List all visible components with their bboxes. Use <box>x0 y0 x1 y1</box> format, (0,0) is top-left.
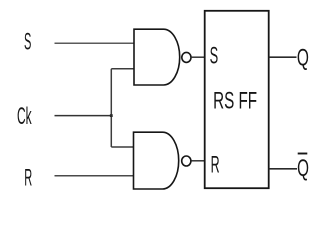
label Q output <box>297 45 309 71</box>
svg-text:R: R <box>211 152 220 178</box>
svg-text:R: R <box>24 164 32 191</box>
wire branch to top NAND input <box>111 68 134 70</box>
RS FF block U3 <box>205 11 269 188</box>
wire R input to bottom NAND <box>55 175 134 177</box>
label Q-bar output <box>297 154 309 183</box>
svg-text:Q: Q <box>297 156 309 182</box>
wire U2 output to RS FF R pin <box>192 160 205 162</box>
bubble of U1 <box>182 52 191 62</box>
pin label S of U3 <box>210 44 219 70</box>
svg-text:S: S <box>24 27 31 54</box>
wire Ck vertical branch <box>110 69 112 147</box>
svg-text:RS FF: RS FF <box>213 88 257 114</box>
bubble of U2 <box>182 156 191 166</box>
label S (input) <box>24 27 31 54</box>
svg-text:S: S <box>210 44 219 70</box>
wire S input to top NAND <box>55 42 135 44</box>
svg-text:Q: Q <box>297 45 309 71</box>
pin label R of U3 <box>211 152 220 178</box>
wire U1 output to RS FF S pin <box>192 56 205 58</box>
label Ck (clock input) <box>17 104 32 131</box>
wire Q output <box>269 56 297 58</box>
svg-text:Ck: Ck <box>17 104 32 131</box>
NAND gate U2 (bottom) <box>134 132 179 189</box>
label RS FF <box>213 88 257 114</box>
overbar of Q-bar <box>298 153 308 155</box>
wire branch to bottom NAND input <box>111 146 133 148</box>
wire Ck horizontal <box>55 115 113 117</box>
junction of Ck wire and vertical branch <box>110 114 113 117</box>
NAND gate U1 (top) <box>134 29 180 85</box>
wire Q-bar output <box>269 168 297 170</box>
label R (input) <box>24 164 32 191</box>
